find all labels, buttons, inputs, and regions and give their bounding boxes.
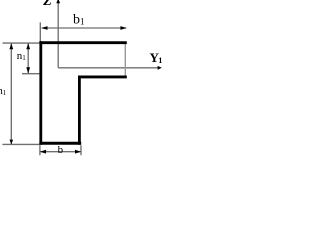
- svg-text:b: b: [58, 144, 64, 156]
- svg-text:Z: Z: [42, 0, 52, 9]
